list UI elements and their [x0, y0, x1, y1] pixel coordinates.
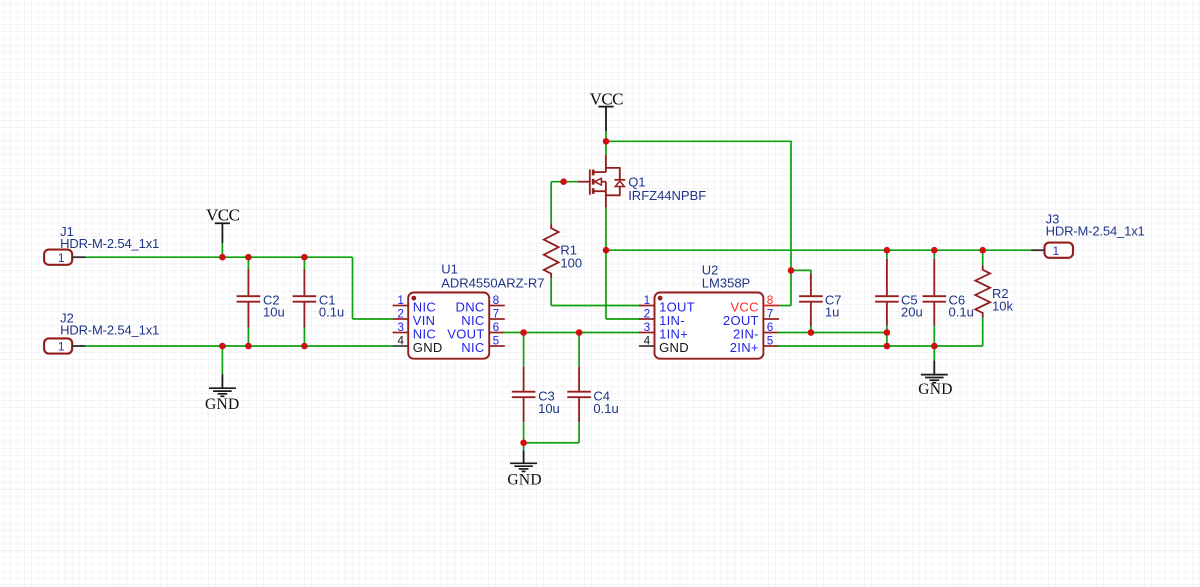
svg-text:NIC: NIC	[461, 340, 484, 355]
U2 pin 7 (2OUT)	[763, 318, 779, 320]
U2 pin 8 (VCC)	[763, 305, 779, 307]
U2 pin 1 (1OUT)	[639, 305, 655, 307]
capacitor C2	[247, 270, 249, 296]
wire C6 top lead	[933, 250, 935, 259]
power symbol VCC bar	[215, 222, 230, 224]
wire J2 row to U1 pin 4	[86, 345, 393, 347]
junction VCC top node	[603, 138, 610, 145]
svg-text:U1: U1	[441, 261, 458, 276]
wire C6 bottom lead	[933, 326, 935, 346]
junction GND left	[219, 343, 226, 350]
transistor Q1 IRFZ44NPBF	[577, 155, 625, 208]
connector J3 pin 1	[1031, 249, 1044, 251]
svg-text:2: 2	[644, 307, 651, 321]
wire to U2 pin 1 1OUT	[551, 305, 640, 307]
U1 pin 3 (NIC)	[393, 332, 409, 334]
power symbol VCC bar	[598, 106, 613, 108]
wire C5 top lead	[886, 250, 888, 259]
wire R1 to 1OUT row	[550, 278, 552, 305]
junction C5 bottom row3	[884, 329, 891, 336]
svg-text:7: 7	[767, 307, 774, 321]
junction VCC drop / C7 tap	[788, 267, 795, 274]
wire bend down to VIN row	[352, 257, 354, 319]
ground symbol bars	[921, 374, 948, 376]
svg-text:1: 1	[58, 251, 65, 265]
wire C7 top lead	[810, 273, 812, 275]
wire U1 VOUT to U2 1IN+	[503, 332, 640, 334]
wire C3 bottom to C4 bottom	[524, 442, 580, 444]
svg-text:6: 6	[493, 320, 500, 334]
wire U2 2IN- row	[777, 332, 887, 334]
capacitor C7	[810, 274, 812, 296]
U2 pin-1 marker dot	[658, 296, 663, 301]
svg-text:10k: 10k	[992, 298, 1013, 313]
junction C3 bottom GND	[520, 440, 527, 447]
wire R2 top	[982, 250, 984, 265]
capacitor C3	[523, 367, 525, 391]
U1 pin 7 (NIC)	[489, 318, 505, 320]
junction R2 top	[979, 247, 986, 254]
wire VCC stem	[221, 243, 223, 257]
junction C5 bottom row4	[884, 343, 891, 350]
wire C7 bottom lead	[810, 326, 812, 333]
U2 pin 5 (2IN+)	[763, 345, 779, 347]
svg-text:0.1u: 0.1u	[949, 305, 974, 320]
svg-text:GND: GND	[205, 396, 239, 413]
junction C5 top	[884, 247, 891, 254]
svg-text:IRFZ44NPBF: IRFZ44NPBF	[628, 188, 706, 203]
svg-text:LM358P: LM358P	[702, 275, 750, 290]
junction C2 bottom	[245, 343, 252, 350]
U2 pin 2 (1IN-)	[639, 318, 655, 320]
wire to U2 pin 2 1IN-	[606, 318, 640, 320]
ground symbol bars	[510, 462, 537, 464]
wire C5 bottom lead	[886, 326, 888, 333]
svg-text:0.1u: 0.1u	[319, 305, 344, 320]
svg-text:3: 3	[644, 320, 651, 334]
svg-text:5: 5	[767, 334, 774, 348]
svg-text:20u: 20u	[901, 305, 923, 320]
U1 pin 6 (VOUT)	[489, 332, 505, 334]
junction gate node	[560, 178, 567, 185]
svg-text:100: 100	[560, 255, 582, 270]
svg-text:5: 5	[493, 334, 500, 348]
wire C3 bottom lead	[523, 422, 525, 443]
svg-text:4: 4	[644, 334, 651, 348]
svg-text:GND: GND	[507, 471, 541, 488]
svg-text:3: 3	[397, 320, 404, 334]
U1 pin 5 (NIC)	[489, 345, 505, 347]
wire C1 top lead	[303, 257, 305, 269]
junction C1 top	[301, 254, 308, 261]
svg-text:10u: 10u	[263, 305, 285, 320]
svg-text:GND: GND	[659, 340, 689, 355]
wire J1 to bend	[86, 256, 353, 258]
wire Q1 source down	[605, 208, 607, 251]
wire C4 top lead	[578, 333, 580, 367]
ground symbol stem	[523, 443, 525, 450]
svg-text:2IN+: 2IN+	[730, 340, 759, 355]
wire C2 bottom lead	[247, 328, 249, 347]
svg-text:1u: 1u	[825, 305, 839, 320]
capacitor C1	[303, 270, 305, 296]
svg-text:GND: GND	[413, 340, 443, 355]
junction C4 top	[576, 329, 583, 336]
U1 pin-1 marker dot	[411, 296, 416, 301]
capacitor C5	[886, 259, 888, 296]
svg-text:8: 8	[493, 293, 500, 307]
capacitor C6	[933, 259, 935, 296]
wire U2 pin 8 to VCC drop	[777, 305, 791, 307]
junction C7 bottom	[808, 329, 815, 336]
IC U1	[408, 293, 489, 359]
U1 pin 4 (GND)	[393, 345, 409, 347]
connector J1 pin 1	[72, 256, 85, 258]
wire gate to R1	[550, 182, 552, 224]
wire VCC stem	[605, 131, 607, 141]
svg-text:VCC: VCC	[206, 206, 240, 225]
ground symbol bars	[209, 387, 236, 389]
svg-text:HDR-M-2.54_1x1: HDR-M-2.54_1x1	[1046, 223, 1145, 238]
svg-text:0.1u: 0.1u	[593, 401, 618, 416]
junction VCC / J1 row	[219, 254, 226, 261]
ground symbol stem	[221, 346, 223, 374]
connector J3	[1045, 243, 1074, 258]
junction C6 top	[931, 247, 938, 254]
svg-text:GND: GND	[918, 381, 952, 398]
U2 pin 4 (GND)	[639, 345, 655, 347]
junction source / rail	[603, 247, 610, 254]
op-amp U2	[655, 293, 764, 359]
svg-text:6: 6	[767, 320, 774, 334]
U2 pin 6 (2IN-)	[763, 332, 779, 334]
wire C1 bottom lead	[303, 328, 305, 347]
wire C5 bottom tie	[886, 333, 888, 347]
resistor R2	[975, 266, 990, 318]
U2 pin 3 (1IN+)	[639, 332, 655, 334]
svg-text:1: 1	[397, 293, 404, 307]
junction C6 bottom	[931, 343, 938, 350]
capacitor C4	[578, 367, 580, 391]
U1 pin 1 (NIC)	[393, 305, 409, 307]
wire U2 2IN+ row	[777, 345, 983, 347]
junction C1 bottom	[301, 343, 308, 350]
wire source to 1IN- bend	[605, 250, 607, 319]
connector J1	[44, 250, 72, 265]
svg-text:ADR4550ARZ-R7: ADR4550ARZ-R7	[441, 275, 544, 290]
U1 pin 2 (VIN)	[393, 318, 409, 320]
wire C2 top lead	[247, 257, 249, 269]
wire to U1 pin 2 VIN	[353, 318, 393, 320]
wire Q1 gate	[551, 181, 577, 183]
wire C3 top lead	[523, 333, 525, 367]
svg-text:10u: 10u	[538, 401, 560, 416]
U1 pin 8 (DNC)	[489, 305, 505, 307]
svg-text:2: 2	[397, 307, 404, 321]
svg-text:4: 4	[397, 334, 404, 348]
connector J2	[44, 338, 72, 353]
svg-text:7: 7	[493, 307, 500, 321]
wire R2 bottom	[982, 318, 984, 347]
svg-text:1: 1	[58, 340, 65, 354]
svg-text:8: 8	[767, 293, 774, 307]
ground symbol stem	[933, 346, 935, 361]
svg-text:HDR-M-2.54_1x1: HDR-M-2.54_1x1	[60, 236, 159, 251]
wire C4 bottom lead	[578, 422, 580, 443]
svg-text:VCC: VCC	[590, 89, 624, 108]
resistor R1	[544, 224, 559, 278]
wire VCC top rail to U2 VCC	[606, 141, 791, 305]
svg-text:1: 1	[1053, 244, 1060, 258]
svg-text:1: 1	[644, 293, 651, 307]
svg-text:HDR-M-2.54_1x1: HDR-M-2.54_1x1	[60, 323, 159, 338]
wire C7 tap	[791, 270, 811, 273]
junction C3 top	[520, 329, 527, 336]
wire VCC to Q1 drain	[605, 141, 607, 155]
junction C2 top	[245, 254, 252, 261]
connector J2 pin 1	[72, 345, 85, 347]
wire output rail to J3	[606, 249, 1031, 251]
